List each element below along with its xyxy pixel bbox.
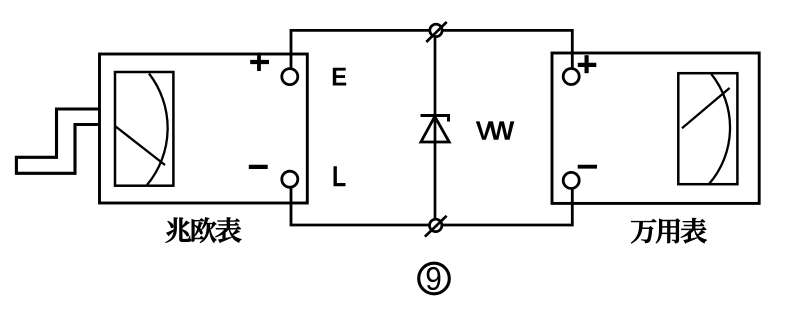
megohmmeter meter window bbox=[115, 72, 173, 186]
megohmmeter - polarity mark bbox=[249, 165, 268, 169]
multimeter meter scale arc bbox=[709, 74, 730, 184]
terminal + circle on multimeter bbox=[563, 69, 579, 85]
label multimeter: 万 bbox=[631, 219, 656, 243]
label megohmmeter: 表 bbox=[216, 217, 242, 242]
wire: bottom run from megohmmeter L(-) terminal down and across to multimeter - terminal bbox=[291, 184, 572, 225]
figure number circle bbox=[419, 263, 450, 294]
megohmmeter meter needle bbox=[115, 126, 165, 165]
terminal - circle on multimeter bbox=[563, 172, 579, 188]
terminal label L bbox=[334, 166, 346, 186]
node: bottom test point, circle with slash bbox=[425, 216, 447, 237]
label megohmmeter: 兆 bbox=[166, 218, 191, 243]
diode label V of VW bbox=[476, 121, 492, 139]
multimeter meter needle bbox=[682, 88, 730, 128]
multimeter meter window bbox=[678, 73, 737, 184]
diode label W of VW bbox=[489, 121, 514, 139]
terminal E circle on megohmmeter bbox=[282, 69, 298, 85]
label multimeter: 表 bbox=[681, 218, 707, 243]
multimeter + polarity mark bbox=[578, 55, 597, 73]
terminal L circle on megohmmeter bbox=[282, 171, 298, 187]
label megohmmeter: 欧 bbox=[192, 217, 216, 242]
multimeter body box bbox=[552, 53, 759, 203]
diode VW triangle pointing up bbox=[421, 117, 449, 143]
wire: top run from megohmmeter E(+) terminal up and across to multimeter + terminal bbox=[291, 30, 572, 72]
megohmmeter + polarity mark bbox=[250, 53, 269, 71]
megohmmeter body box bbox=[100, 54, 308, 203]
megohmmeter crank handle bbox=[16, 109, 99, 173]
multimeter - polarity mark bbox=[578, 165, 597, 169]
megohmmeter meter scale arc bbox=[147, 74, 168, 186]
diode VW cathode bar with bent right end bbox=[421, 116, 449, 122]
label multimeter: 用 bbox=[656, 219, 680, 244]
figure number 9 bbox=[427, 267, 441, 290]
node: top test point, circle with slash bbox=[426, 22, 446, 42]
terminal label E bbox=[333, 68, 346, 86]
wire: diode branch vertical between the two test nodes bbox=[434, 30, 437, 225]
